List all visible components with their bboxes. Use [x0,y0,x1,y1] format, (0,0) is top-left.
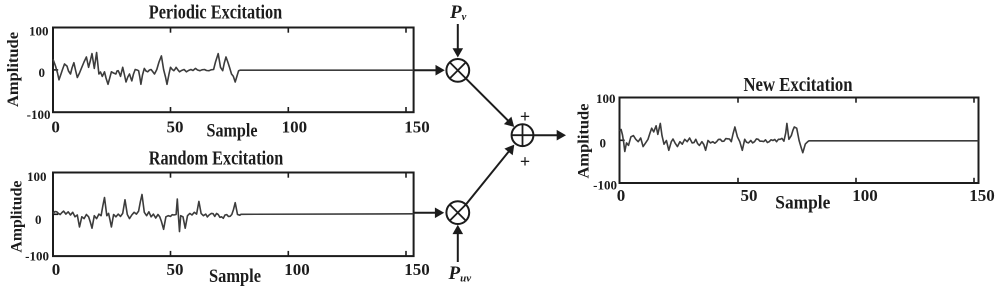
svg-text:50: 50 [167,260,184,279]
svg-text:-100: -100 [25,249,49,264]
multiplier M1 (circle with X) [446,59,469,82]
wire: M1 to adder S1 [466,79,509,122]
svg-text:150: 150 [404,117,430,136]
x tick 100 (top) [287,28,289,33]
svg-text:100: 100 [282,117,308,136]
wire: M2 to adder S1 [466,151,509,205]
svg-text:Amplitude: Amplitude [9,181,26,253]
svg-text:50: 50 [741,186,758,205]
y tick 0 (left) [620,139,625,141]
svg-text:+: + [520,152,530,172]
svg-text:Amplitude: Amplitude [5,32,22,107]
svg-text:0: 0 [600,135,607,150]
svg-text:100: 100 [596,91,616,106]
waveform: periodic excitation signal [53,53,414,85]
x tick 100 (top) [855,98,857,103]
x tick 100 (bottom) [287,107,289,112]
x tick 150 (top) [405,173,407,178]
svg-text:150: 150 [969,186,995,205]
x tick 50 (top) [170,28,172,33]
x tick 150 (top) [973,98,975,103]
svg-text:150: 150 [404,260,430,279]
x tick 50 (top) [170,173,172,178]
arrowhead into M1 from top [453,48,464,57]
multiplier M2 (circle with X) [446,201,469,224]
wire: P_v down to multiplier M1 [457,24,459,50]
axes box: new excitation plot [620,98,979,184]
svg-text:0: 0 [52,260,61,279]
x tick 50 (bottom) [170,251,172,256]
svg-text:+: + [520,106,530,126]
x tick 150 (bottom) [973,178,975,183]
arrowhead toward new excitation plot [557,130,566,141]
axes box: random excitation plot [53,173,414,257]
svg-text:Random Excitation: Random Excitation [149,148,284,170]
svg-text:0: 0 [51,117,60,136]
arrowhead into M2 from left [435,208,444,219]
wire: periodic plot output to M1 [414,69,437,71]
svg-text:Periodic Excitation: Periodic Excitation [149,1,283,23]
svg-text:0: 0 [39,65,46,80]
svg-text:100: 100 [284,260,310,279]
svg-text:100: 100 [29,23,49,38]
svg-text:New Excitation: New Excitation [744,74,853,96]
arrowhead into M1 from left [436,65,445,76]
x tick 100 (top) [287,173,289,178]
waveform: random excitation signal [53,195,414,232]
x tick 50 (bottom) [170,107,172,112]
svg-text:Pv: Pv [449,2,467,23]
x tick 100 (bottom) [287,251,289,256]
wire: adder S1 to new excitation plot [533,134,559,136]
arrowhead into S1 from upper-left [504,117,514,127]
arrowhead into M2 from bottom [453,225,464,234]
x tick 150 (bottom) [405,251,407,256]
x tick 50 (bottom) [737,178,739,183]
svg-text:-100: -100 [593,177,617,192]
svg-text:Sample: Sample [209,266,261,286]
waveform: new excitation signal [620,123,979,152]
svg-text:0: 0 [617,186,626,205]
arrowhead into S1 from lower-left [504,145,514,156]
x tick 50 (top) [737,98,739,103]
axes box: periodic excitation plot [53,28,414,113]
svg-text:Puv: Puv [448,263,472,285]
adder S1 (circle with plus) [512,124,534,146]
x tick 150 (top) [405,28,407,33]
svg-text:-100: -100 [27,107,51,122]
x tick 100 (bottom) [855,178,857,183]
y tick 0 (left) [53,69,58,71]
svg-text:50: 50 [167,117,184,136]
wire: P_uv up to multiplier M2 [457,232,459,262]
svg-text:Sample: Sample [207,121,258,142]
y tick 0 (left) [53,213,58,215]
svg-text:Amplitude: Amplitude [576,104,593,179]
svg-text:100: 100 [852,186,878,205]
wire: random plot output to M2 [414,212,437,214]
x tick 150 (bottom) [405,107,407,112]
svg-text:100: 100 [27,169,47,184]
svg-text:Sample: Sample [775,193,830,214]
svg-text:0: 0 [35,212,42,227]
